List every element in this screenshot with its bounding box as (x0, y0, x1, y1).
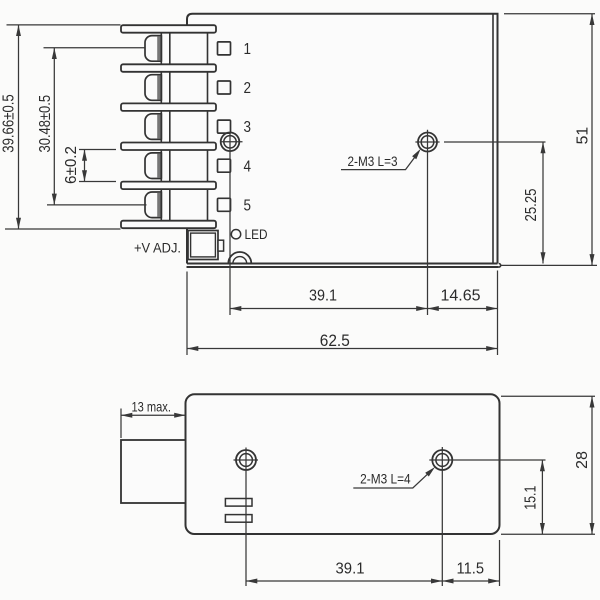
svg-text:6±0.2: 6±0.2 (63, 146, 80, 184)
svg-text:28: 28 (574, 451, 591, 469)
svg-text:5: 5 (243, 197, 251, 214)
svg-text:1: 1 (243, 41, 251, 58)
svg-text:30.48±0.5: 30.48±0.5 (37, 95, 54, 153)
svg-text:62.5: 62.5 (320, 332, 350, 350)
svg-text:13 max.: 13 max. (131, 398, 171, 414)
svg-text:2-M3 L=3: 2-M3 L=3 (348, 154, 398, 169)
svg-text:39.1: 39.1 (309, 288, 337, 305)
svg-text:2-M3 L=4: 2-M3 L=4 (360, 472, 411, 487)
svg-text:25.25: 25.25 (523, 189, 540, 222)
svg-text:3: 3 (243, 119, 251, 136)
svg-text:39.66±0.5: 39.66±0.5 (1, 94, 18, 153)
svg-text:39.1: 39.1 (336, 561, 365, 578)
svg-text:14.65: 14.65 (441, 288, 481, 305)
svg-text:LED: LED (245, 226, 268, 242)
svg-text:+V ADJ.: +V ADJ. (134, 240, 181, 256)
svg-text:11.5: 11.5 (457, 561, 485, 578)
svg-text:2: 2 (243, 80, 251, 97)
svg-text:15.1: 15.1 (522, 486, 539, 510)
svg-text:4: 4 (243, 158, 251, 175)
svg-text:51: 51 (575, 127, 592, 145)
